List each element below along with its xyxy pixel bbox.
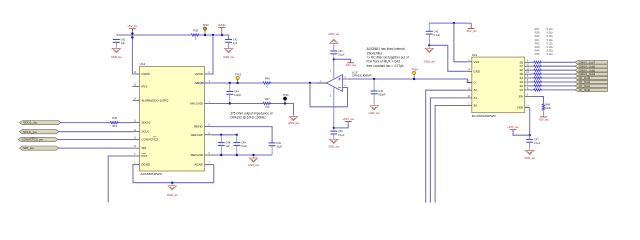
- global label Ch_Out2: [575, 80, 608, 83]
- svg-text:GND_iso: GND_iso: [328, 32, 339, 36]
- global label CONVST/CS_iso: [18, 137, 58, 141]
- resistor value table R37-R45: [535, 27, 554, 56]
- op-amp U13 pin 3 +in: [343, 78, 348, 80]
- svg-text:0.1µF: 0.1µF: [534, 142, 541, 145]
- U11 pin 5 S4 stub: [525, 77, 530, 79]
- wire REFIO to C50: [212, 127, 273, 143]
- wire C42 to gnd: [228, 42, 230, 47]
- wire RST down: [108, 156, 132, 203]
- wire DVDD feed: [131, 35, 133, 74]
- capacitor C41 1uF: [113, 40, 120, 43]
- junction refgnd gnd: [252, 154, 254, 156]
- U12 pin 12 SCLK stub: [132, 131, 139, 133]
- power flag AVDD: [218, 28, 225, 36]
- U12 pin 10 SDI stub: [132, 147, 139, 149]
- power flag +15V_iso (opamp): [345, 121, 352, 123]
- wire C50 lower stem: [271, 146, 273, 155]
- U12 pin 7 AGND stub: [205, 164, 212, 166]
- svg-text:OPA192 @ 10Hz-100kHz: OPA192 @ 10Hz-100kHz: [230, 115, 266, 119]
- svg-text:R40: R40: [535, 34, 540, 38]
- ground GND_iso ADC: [168, 184, 176, 190]
- svg-text:TP26: TP26: [282, 93, 289, 97]
- svg-text:GND_iso: GND_iso: [111, 55, 122, 59]
- U11 pin 11 S6 stub: [525, 69, 530, 71]
- wire -15V rail MUX: [429, 22, 471, 24]
- svg-text:ALARM/SDO-1/GPO: ALARM/SDO-1/GPO: [142, 98, 170, 102]
- wire C46 stem: [333, 128, 335, 131]
- junction C44 bottom: [229, 102, 231, 104]
- wire feedback loop: [310, 83, 348, 107]
- svg-text:R37: R37: [535, 27, 540, 31]
- junction agnd loop: [171, 182, 173, 184]
- junction C49 bottom: [236, 154, 238, 156]
- op-amp U13 OPA192IDBVR: [326, 75, 342, 92]
- testpoint TP26: [284, 99, 286, 104]
- U12 pin 2 AVDD stub: [205, 73, 212, 75]
- junction C48 bottom: [220, 154, 222, 156]
- capacitor C48 1uF: [218, 143, 225, 146]
- ground GND_iso above C43: [330, 39, 338, 45]
- svg-text:R38: R38: [193, 29, 198, 33]
- svg-text:GND: GND: [474, 69, 480, 73]
- resistor R38 0R: [191, 34, 200, 36]
- U11 pin 16 A1 stub: [467, 97, 472, 99]
- wire REFCAP: [212, 134, 237, 136]
- svg-text:-15V_iso: -15V_iso: [466, 29, 477, 33]
- svg-text:5.11k: 5.11k: [547, 41, 554, 45]
- junction C45: [373, 78, 375, 80]
- U12 pin 15 RVS stub: [132, 85, 139, 87]
- wire S2 to resistor: [530, 85, 534, 87]
- junction +5V/C41/DVDD: [131, 36, 133, 38]
- ground GND_iso under C47: [526, 149, 534, 155]
- wire R40 to label: [542, 69, 575, 71]
- svg-text:5.11k: 5.11k: [547, 34, 554, 38]
- wire R42 to label: [542, 77, 575, 79]
- wire AVDD vertical: [205, 35, 214, 74]
- capacitor C42 1uF: [225, 40, 232, 43]
- svg-text:AGND: AGND: [194, 163, 202, 167]
- svg-text:C50: C50: [276, 142, 281, 145]
- op-amp U13 pin 1 out: [317, 82, 327, 84]
- wire CONVST: [58, 139, 132, 141]
- svg-text:RST: RST: [142, 154, 148, 158]
- junction opamp feedback: [309, 82, 311, 84]
- wire C49 lower stem: [236, 145, 238, 155]
- wire C48 lower stem: [220, 145, 222, 155]
- svg-text:S1: S1: [519, 88, 523, 92]
- svg-text:GND_iso: GND_iso: [524, 156, 535, 160]
- svg-text:C47: C47: [534, 138, 539, 141]
- svg-text:C40: C40: [434, 30, 439, 33]
- global label CMUX_Out6: [575, 65, 608, 68]
- wire C45 stem: [373, 79, 375, 91]
- svg-text:5.11k: 5.11k: [547, 27, 554, 31]
- junction AVDD branch: [212, 34, 214, 36]
- wire R44 to label: [542, 85, 575, 87]
- capacitor C43 0.1uF: [330, 51, 337, 54]
- capacitor C44 100pF: [226, 92, 233, 95]
- U11 pin 10 S7 stub: [525, 65, 530, 67]
- wire R46 to opamp: [272, 82, 327, 84]
- svg-text:+5V_iso: +5V_iso: [127, 24, 138, 28]
- wire SDI: [59, 147, 132, 149]
- junction AVDD flag: [221, 34, 223, 36]
- wire VDD down: [529, 108, 531, 136]
- capacitor C47 0.1uF: [526, 139, 533, 142]
- U11 pin 14 GND stub: [467, 70, 472, 72]
- wire S8 to resistor: [530, 61, 534, 63]
- U12 pin 8 REFIO stub: [205, 126, 212, 128]
- svg-text:TP25: TP25: [235, 72, 242, 76]
- wire C47 lower stem: [529, 142, 531, 149]
- testpoint TP23: [204, 29, 206, 35]
- svg-text:RVS: RVS: [142, 84, 148, 88]
- wire -15V flag link: [334, 59, 351, 63]
- svg-text:GND_iso: GND_iso: [328, 144, 339, 148]
- wire R47 to gnd corner: [272, 104, 294, 116]
- resistor R37 5.11k: [534, 61, 543, 63]
- junction TP25: [236, 82, 238, 84]
- wire A0: [435, 106, 467, 203]
- U11 pin 13 VDD stub: [525, 107, 530, 109]
- overline CS on CONVST/CS_iso label: [31, 136, 34, 138]
- svg-text:ADS8681IPWR: ADS8681IPWR: [141, 172, 163, 176]
- svg-text:OPA192IDBVR: OPA192IDBVR: [352, 74, 372, 78]
- svg-text:R44: R44: [535, 49, 540, 53]
- svg-text:C42: C42: [233, 39, 238, 42]
- U11 pin 12 S5 stub: [525, 73, 530, 75]
- wire C40 bottom stem: [428, 34, 430, 45]
- junction C40 gnd: [428, 44, 430, 46]
- svg-text:1µF: 1µF: [226, 145, 231, 148]
- wire SCLK: [59, 131, 132, 133]
- op-amp U13 pin 4 -in: [343, 87, 348, 89]
- wire R48 to flag: [543, 111, 545, 117]
- global label CMUX_Out5: [575, 69, 608, 72]
- wire S1 to resistor: [530, 89, 534, 91]
- wire S4 to resistor: [530, 77, 534, 79]
- svg-text:EN: EN: [519, 95, 523, 99]
- svg-text:5.11k: 5.11k: [547, 45, 554, 49]
- svg-text:D: D: [474, 81, 476, 85]
- junction TP23 node: [204, 34, 206, 36]
- resistor R47 374R: [263, 102, 272, 104]
- capacitor C40 0.1uF: [426, 31, 433, 34]
- wire R45 to label: [542, 89, 575, 91]
- ground GND_iso under C46: [330, 138, 338, 144]
- overline CONVST/CS pin: [153, 136, 157, 138]
- wire S7 to resistor: [530, 65, 534, 67]
- multiplexer U11 MUX36S08IPWR body: [472, 57, 525, 113]
- svg-text:5.11k: 5.11k: [547, 52, 554, 56]
- wire opamp to MUX D: [348, 79, 472, 83]
- svg-text:time constant tau = 4.27µs: time constant tau = 4.27µs: [367, 64, 404, 68]
- svg-text:5.11k: 5.11k: [547, 38, 554, 42]
- svg-text:C44: C44: [234, 91, 239, 94]
- U12 pin 13 SDO-0 stub: [132, 122, 139, 124]
- svg-text:SDI_iso: SDI_iso: [23, 146, 34, 150]
- svg-text:AVDD: AVDD: [195, 72, 203, 76]
- wire S6 to resistor: [530, 69, 534, 71]
- junction C48 top: [220, 134, 222, 136]
- svg-text:VDD: VDD: [517, 106, 523, 110]
- U11 pin 15 A2 stub: [467, 89, 472, 91]
- U11 pin 3 VSS stub: [467, 61, 472, 63]
- svg-text:100pF: 100pF: [234, 94, 242, 97]
- wire R38 to AVDD node: [200, 35, 229, 40]
- global label Ch_Out1: [575, 84, 608, 87]
- svg-text:C43: C43: [338, 50, 343, 53]
- svg-text:TP24: TP24: [411, 67, 418, 71]
- power flag -15V_iso (opamp): [347, 62, 354, 64]
- svg-text:C48: C48: [226, 142, 231, 145]
- svg-text:REFGND: REFGND: [191, 153, 203, 157]
- power flag +5V_iso (ADC): [129, 29, 136, 35]
- resistor R43 5.11k: [534, 81, 543, 83]
- svg-text:GND_iso: GND_iso: [288, 121, 299, 125]
- U11 pin 8 D stub: [467, 82, 472, 84]
- resistor R41 5.11k: [534, 73, 543, 75]
- junction C44 top: [229, 82, 231, 84]
- svg-text:GND_iso: GND_iso: [167, 193, 178, 197]
- junction +5V flag connection: [131, 32, 133, 34]
- wire R37 to label: [542, 61, 575, 63]
- svg-text:DVDD: DVDD: [142, 72, 150, 76]
- svg-text:SCLK_iso: SCLK_iso: [23, 130, 37, 134]
- capacitor C49 10uF: [233, 143, 240, 146]
- wire C44 bottom stem: [229, 94, 231, 103]
- wire A2: [426, 90, 467, 202]
- wire C44 top stem: [229, 83, 231, 92]
- svg-text:U11: U11: [472, 53, 478, 57]
- svg-text:0.1µF: 0.1µF: [338, 134, 345, 137]
- wire C41 to gnd: [115, 42, 117, 47]
- U12 pin 4 AIN_GND stub: [205, 103, 212, 105]
- svg-text:0.1µF: 0.1µF: [338, 54, 345, 57]
- global label Ch_Out3: [575, 76, 608, 79]
- svg-text:SCLK: SCLK: [142, 130, 150, 134]
- junction VDD node: [529, 134, 531, 136]
- testpoint TP24: [413, 73, 415, 79]
- wire C40 top stem: [428, 23, 430, 31]
- svg-text:REFCAP: REFCAP: [191, 133, 203, 137]
- junction VSS rail: [453, 22, 455, 24]
- wire AIN_GND: [212, 103, 264, 105]
- ADC U12 ADS8681IPWR body: [140, 67, 205, 172]
- junction TP26: [284, 102, 286, 104]
- wire A1: [430, 98, 466, 203]
- svg-text:5.11k: 5.11k: [547, 49, 554, 53]
- svg-text:R49: R49: [112, 116, 117, 120]
- capacitor C46 0.1uF: [330, 131, 337, 134]
- wire AIN_P right part: [197, 82, 212, 84]
- U12 pin 5 REFGND stub: [205, 154, 212, 156]
- svg-text:1µF: 1µF: [233, 42, 238, 45]
- ground GND_iso under C40: [425, 47, 433, 53]
- wire C47 stem: [529, 135, 531, 139]
- svg-text:49.9: 49.9: [112, 124, 118, 128]
- ground GND_iso AIN_GND: [289, 115, 297, 121]
- wire C49 upper stem: [236, 135, 238, 143]
- U11 pin 6 S3 stub: [525, 81, 530, 83]
- ground GND_iso under C42: [224, 47, 232, 53]
- svg-text:U12: U12: [140, 62, 146, 66]
- resistor R48 100k: [542, 104, 544, 110]
- capacitor C50 10uF: [269, 143, 276, 146]
- svg-text:820pF: 820pF: [378, 94, 386, 97]
- U12 pin 6 REFCAP stub: [205, 134, 212, 136]
- wire +15V to VDD node: [513, 130, 530, 136]
- U11 pin 1 A0 stub: [467, 105, 472, 107]
- resistor R40 5.11k: [534, 69, 543, 71]
- svg-text:10µF: 10µF: [241, 145, 247, 148]
- svg-text:+15V_iso: +15V_iso: [342, 117, 354, 121]
- U11 pin 7 S2 stub: [525, 85, 530, 87]
- svg-text:C45: C45: [378, 90, 383, 93]
- svg-text:GND_iso: GND_iso: [248, 163, 259, 167]
- svg-text:R48: R48: [545, 103, 550, 107]
- wire REFGND: [212, 154, 273, 156]
- svg-text:SDO-0: SDO-0: [142, 121, 151, 125]
- wire AIN_P to opamp out: [212, 82, 264, 84]
- svg-text:R46: R46: [265, 77, 270, 81]
- junction TP24: [413, 78, 415, 80]
- U12 pin 1 DGND stub: [132, 164, 139, 166]
- svg-text:CONVST/CS_iso: CONVST/CS_iso: [22, 138, 44, 142]
- U12 pin 3 AIN_P stub: [205, 82, 212, 84]
- capacitor C45 820pF: [371, 91, 378, 94]
- global label CMUX_Out7: [575, 61, 608, 64]
- svg-text:TP23: TP23: [202, 23, 209, 27]
- wire R43 to label: [542, 81, 575, 83]
- svg-text:+15V_iso: +15V_iso: [507, 125, 519, 129]
- svg-text:REFIO: REFIO: [194, 125, 204, 129]
- svg-text:GND_iso: GND_iso: [424, 59, 435, 63]
- svg-text:R39: R39: [535, 31, 540, 35]
- svg-text:GND_iso: GND_iso: [369, 111, 380, 115]
- U12 pin 16 DVDD stub: [132, 73, 139, 75]
- global label CMUX_Out4: [575, 72, 608, 75]
- svg-text:AVDD: AVDD: [218, 23, 226, 27]
- svg-text:MUX36S08IPWR: MUX36S08IPWR: [472, 114, 497, 118]
- power flag +5V_iso (R48): [540, 116, 547, 118]
- U12 pin 11 CONVST/CS stub: [132, 139, 139, 141]
- wire R41 to label: [542, 73, 575, 75]
- testpoint TP25: [237, 78, 239, 83]
- svg-text:374: 374: [265, 105, 270, 109]
- global label Ch_Out0: [575, 88, 608, 91]
- U12 pin 9 RST stub: [132, 155, 139, 157]
- svg-text:AIN_GND: AIN_GND: [190, 102, 203, 106]
- wire S3 to resistor: [530, 81, 534, 83]
- power flag +15V_iso (MUX VDD): [510, 129, 517, 131]
- U11 pin 2 EN stub: [525, 96, 530, 98]
- ground GND_iso under C41: [112, 47, 120, 53]
- svg-text:10µF: 10µF: [276, 146, 282, 149]
- svg-text:C41: C41: [121, 39, 126, 42]
- junction C49 top: [236, 134, 238, 136]
- wire C48 stems: [220, 135, 222, 143]
- resistor R45 5.11k: [534, 89, 543, 91]
- wire R49 to SDO pin: [119, 122, 132, 124]
- svg-text:CONVST/CS: CONVST/CS: [142, 138, 159, 142]
- svg-text:SDI: SDI: [142, 146, 147, 150]
- resistor R44 5.11k: [534, 85, 543, 87]
- svg-text:-15V_iso: -15V_iso: [345, 63, 356, 67]
- svg-text:C49: C49: [241, 142, 246, 145]
- wire DGND-AGND loop: [133, 165, 214, 183]
- ground GND_iso refs: [249, 157, 257, 163]
- svg-text:0.1µF: 0.1µF: [434, 34, 441, 37]
- wire GND pin feed: [429, 45, 467, 71]
- wire C43 lower stem: [333, 54, 335, 60]
- svg-text:Ch_Out0: Ch_Out0: [579, 88, 591, 92]
- wire C43 upper stem: [333, 45, 335, 51]
- wire S5 to resistor: [530, 73, 534, 75]
- wire +15V flag link: [334, 122, 348, 128]
- U12 pin 14 ALARM/SDO-1/GPO stub: [132, 99, 139, 101]
- wire C46 lower stem: [333, 134, 335, 138]
- resistor R46 0R: [263, 82, 272, 84]
- global label SDO1_iso: [19, 121, 61, 125]
- wire VSS feed: [454, 23, 467, 62]
- junction -15V node: [333, 58, 335, 60]
- svg-text:A2: A2: [474, 88, 478, 92]
- svg-text:100k: 100k: [545, 106, 551, 110]
- U11 pin 4 S1 stub: [525, 89, 530, 91]
- global label SCLK_iso: [19, 130, 59, 134]
- svg-text:DGND: DGND: [142, 163, 151, 167]
- wire C45 lower stem: [373, 94, 375, 104]
- wire R39 to label: [542, 65, 575, 67]
- resistor R39 5.11k: [534, 65, 543, 67]
- svg-text:C46: C46: [338, 130, 343, 133]
- svg-text:GND_iso: GND_iso: [223, 55, 234, 59]
- svg-text:R41: R41: [535, 38, 540, 42]
- overline RST pin: [142, 152, 147, 154]
- svg-text:A0: A0: [474, 104, 478, 108]
- svg-text:A1: A1: [474, 96, 478, 100]
- svg-text:SDO1_iso: SDO1_iso: [23, 121, 37, 125]
- svg-text:VSS: VSS: [474, 60, 480, 64]
- ground GND_iso under C45: [370, 104, 378, 110]
- svg-text:R47: R47: [265, 97, 270, 101]
- svg-text:R45: R45: [535, 52, 540, 56]
- resistor R49 49.9R: [110, 122, 119, 124]
- resistor R42 5.11k: [534, 77, 543, 79]
- U11 pin 9 S8 stub: [525, 61, 530, 63]
- wire SDO1 to R49: [61, 122, 110, 124]
- svg-text:+5V_iso: +5V_iso: [538, 117, 549, 121]
- junction +15V node: [333, 127, 335, 129]
- svg-text:5.11k: 5.11k: [547, 31, 554, 35]
- power flag -15V_iso (MUX): [468, 23, 475, 29]
- wire EN to R48: [530, 97, 544, 104]
- svg-text:R42: R42: [535, 41, 540, 45]
- svg-text:R43: R43: [535, 45, 540, 49]
- wire +5V rail: [116, 34, 191, 36]
- global label SDI_iso: [19, 146, 59, 150]
- svg-text:1µF: 1µF: [121, 42, 126, 45]
